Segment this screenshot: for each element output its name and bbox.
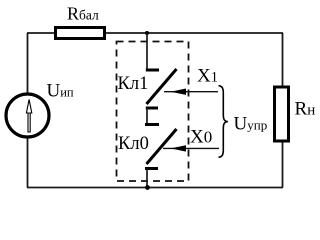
wire: bottom horizontal bus bbox=[27, 187, 283, 189]
svg-text:X1: X1 bbox=[197, 66, 218, 87]
svg-text:Uип: Uип bbox=[47, 81, 74, 102]
junction node top bbox=[145, 31, 149, 35]
wire: right vertical bus bbox=[282, 33, 284, 188]
svg-text:X0: X0 bbox=[190, 127, 212, 148]
dashed control box bbox=[117, 42, 189, 182]
wire: top horizontal bus bbox=[27, 32, 283, 34]
junction node bottom bbox=[145, 185, 150, 190]
voltage source U ип (circle) bbox=[6, 94, 49, 137]
resistor Rбал bbox=[56, 28, 105, 39]
resistor Rн bbox=[275, 87, 289, 141]
wire: switch column lower bbox=[146, 169, 148, 188]
switch Кл0 top contact bar bbox=[145, 123, 159, 126]
switch Кл1 top contact bar bbox=[146, 69, 159, 72]
wire: switch column upper bbox=[146, 33, 148, 70]
svg-text:Rн: Rн bbox=[295, 98, 316, 119]
svg-text:Кл1: Кл1 bbox=[118, 74, 149, 94]
svg-text:Rбал: Rбал bbox=[67, 4, 99, 24]
brace for control voltage bbox=[219, 86, 228, 158]
switch Кл0 bottom contact bar bbox=[145, 167, 158, 170]
switch Кл1 blade bbox=[147, 69, 177, 104]
switch Кл1 bottom contact bar bbox=[146, 107, 158, 110]
switch Кл0 blade bbox=[147, 129, 177, 164]
voltage source arrow bbox=[26, 100, 31, 133]
control arrow X0 bbox=[163, 147, 219, 149]
wire: between switches bbox=[146, 108, 148, 125]
wire: left vertical bus bbox=[27, 33, 29, 188]
control arrow X1 bbox=[164, 91, 218, 93]
svg-text:Uупр: Uупр bbox=[234, 113, 268, 134]
svg-text:Кл0: Кл0 bbox=[118, 134, 149, 154]
